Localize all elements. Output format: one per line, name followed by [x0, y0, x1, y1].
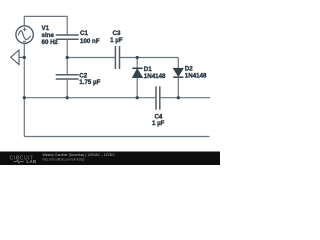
svg-text:D2: D2: [185, 65, 193, 72]
wire middle rail left of C3: [67, 57, 115, 59]
wire left vertical: V1 bottom down to bottom rail: [23, 43, 25, 136]
wire lower rail y=98 right of C4: [160, 97, 210, 99]
svg-text:1.75 µF: 1.75 µF: [79, 79, 100, 86]
junction D1 top middle rail: [136, 56, 139, 59]
junction left vertical lower rail: [23, 96, 26, 99]
svg-text:60 Hz: 60 Hz: [42, 39, 58, 46]
svg-text:sine: sine: [42, 32, 55, 39]
junction C2 bottom lower rail: [66, 96, 69, 99]
capacitor C4: [156, 86, 160, 109]
junction at flag node: [23, 56, 26, 59]
wire top: V1 top to C1 top: [24, 16, 67, 35]
diode D2: [173, 58, 183, 98]
footer bar: [0, 152, 220, 166]
svg-text:1N4148: 1N4148: [185, 73, 207, 80]
junction D2 bottom lower rail: [177, 96, 180, 99]
CircuitLab logo: [10, 153, 116, 164]
svg-text:V1: V1: [42, 25, 50, 32]
svg-text:LAB: LAB: [27, 159, 37, 164]
junction C1-C2 middle rail: [66, 56, 69, 59]
capacitor C2: [56, 58, 79, 98]
net flag triangle at node: [11, 50, 25, 65]
capacitor C1: [56, 35, 79, 39]
wire C1 bottom to middle rail: [66, 39, 68, 57]
wire lower rail y=98 left of C4: [24, 97, 156, 99]
svg-text:D1: D1: [144, 66, 152, 73]
label V1 sine 60 Hz: [42, 25, 208, 127]
svg-text:1 µF: 1 µF: [110, 37, 123, 44]
diode D1: [132, 58, 142, 98]
svg-text:1 µF: 1 µF: [152, 120, 165, 127]
svg-text:C1: C1: [80, 30, 88, 37]
svg-text:http://circuitlab.com/c4xk26p/: http://circuitlab.com/c4xk26p/: [43, 157, 86, 161]
svg-text:C3: C3: [113, 30, 121, 37]
wire bottom rail y=136.5: [24, 136, 209, 138]
svg-text:C4: C4: [154, 113, 162, 120]
capacitor C3: [115, 46, 119, 69]
junction D1 bottom lower rail: [136, 96, 139, 99]
svg-text:C2: C2: [79, 72, 87, 79]
svg-text:1N4148: 1N4148: [144, 73, 166, 80]
voltage source V1: [16, 26, 33, 43]
wire middle rail right of C3: [120, 57, 179, 59]
svg-text:100 nF: 100 nF: [80, 38, 100, 45]
